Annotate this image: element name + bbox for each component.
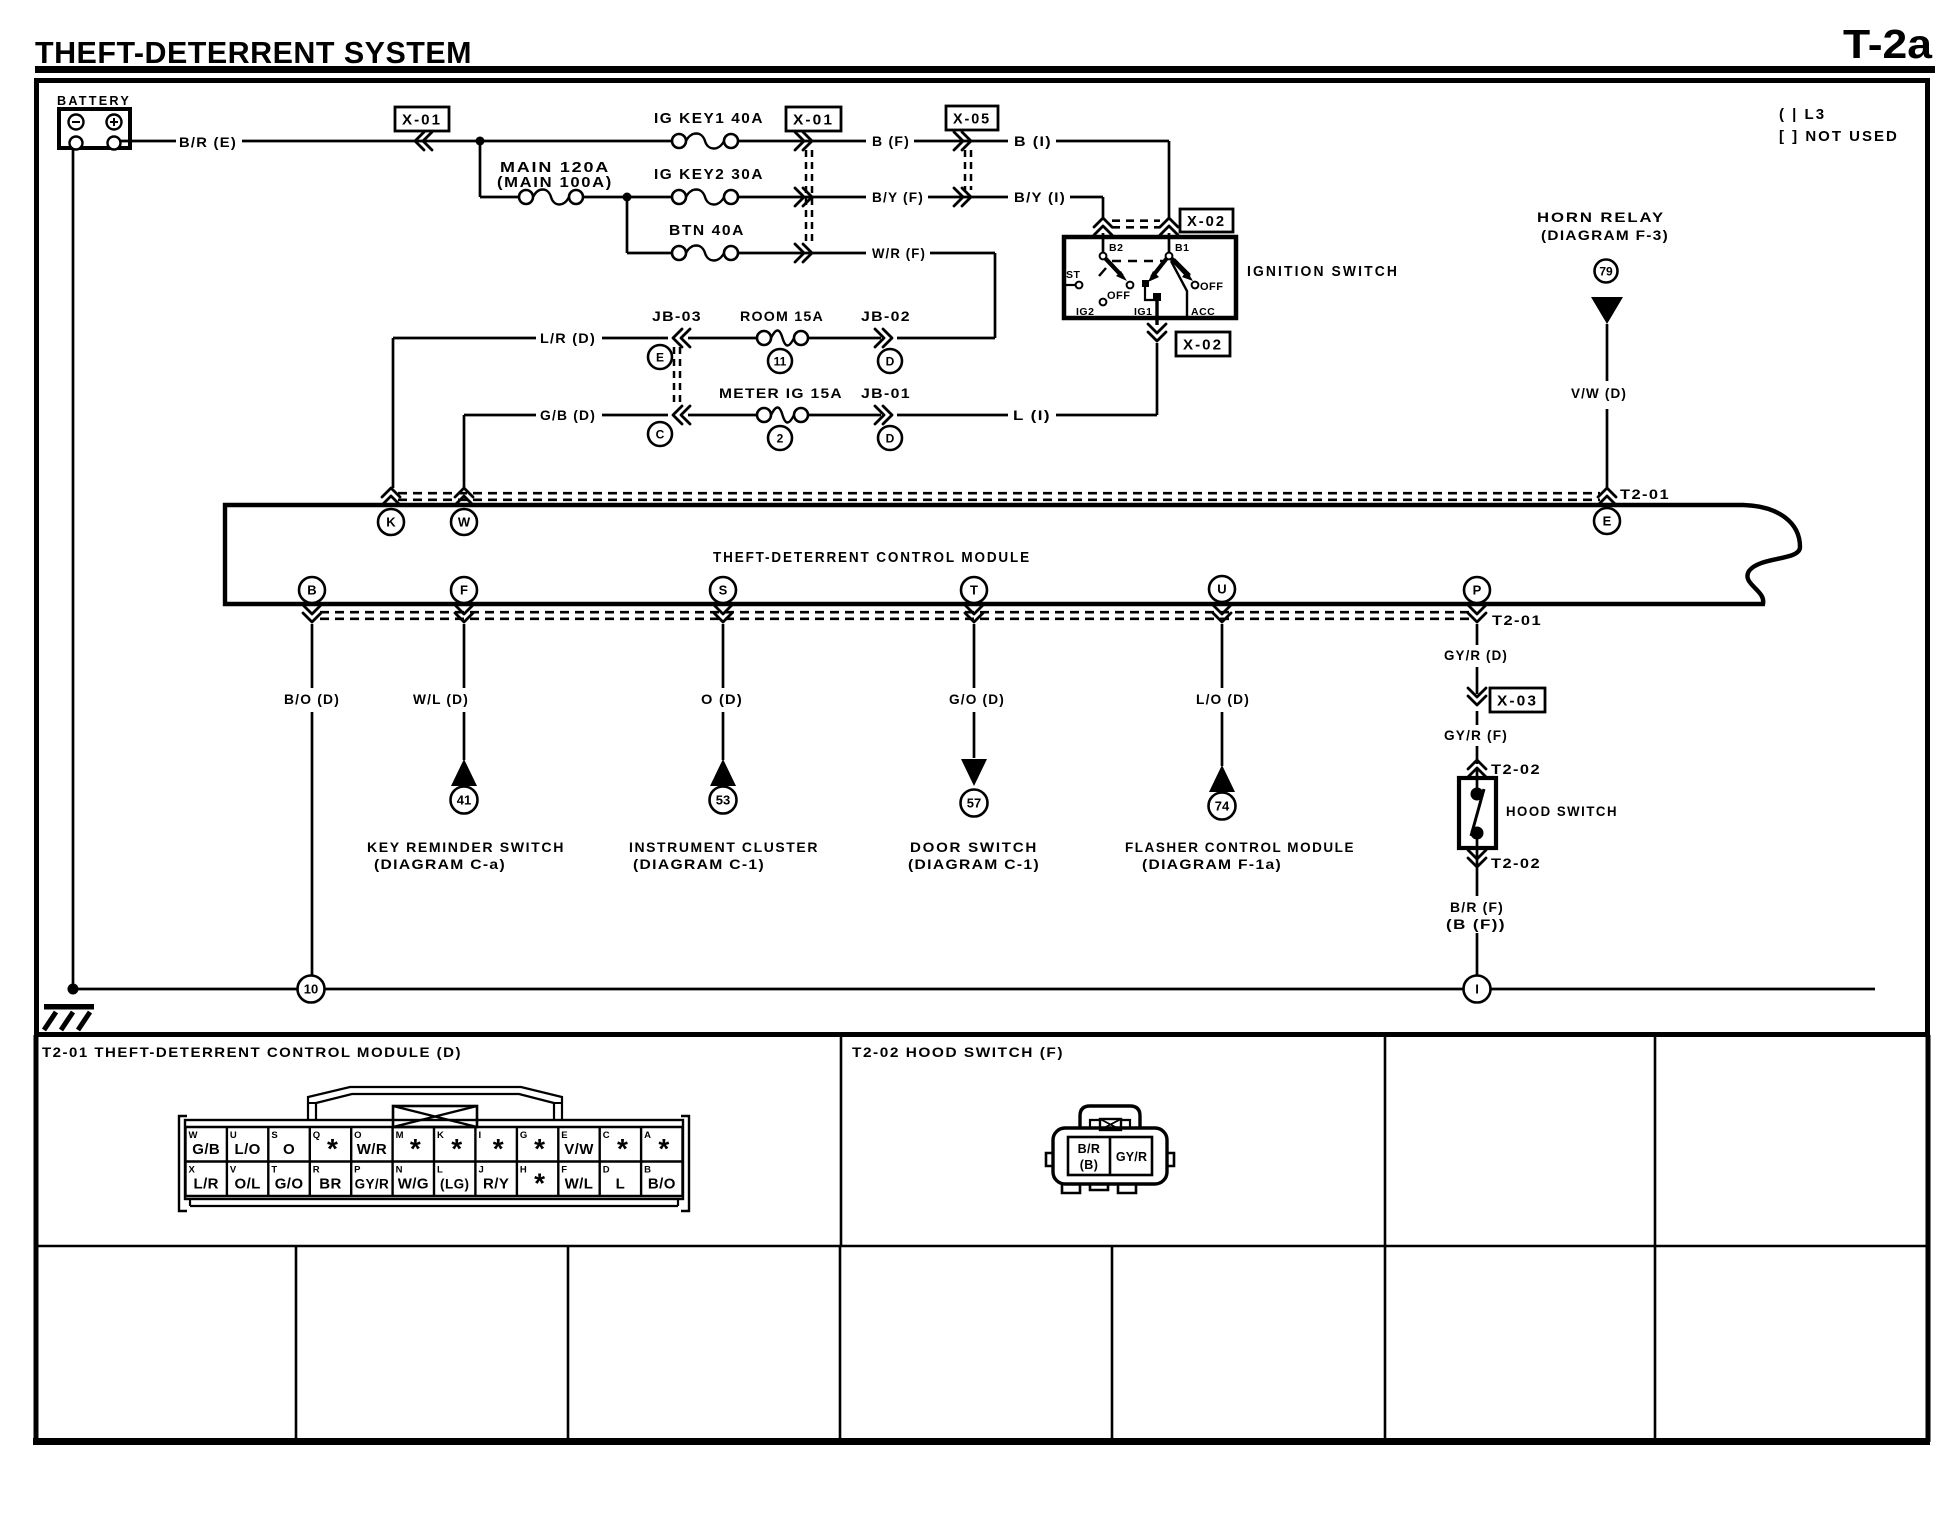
- pin B chevron: [303, 605, 321, 622]
- ground bus wire: [73, 988, 298, 991]
- wire L (I): [897, 414, 1008, 417]
- JB-03 dashed link: [673, 347, 676, 407]
- svg-text:DOOR SWITCH: DOOR SWITCH: [910, 839, 1038, 855]
- svg-text:*: *: [534, 1168, 545, 1199]
- svg-text:57: 57: [967, 796, 981, 811]
- T2-01 hood: [308, 1087, 562, 1120]
- wire L/O (D) to flasher control module: [1221, 624, 1224, 688]
- ignition ACC branch: [1171, 261, 1187, 317]
- svg-text:*: *: [534, 1133, 545, 1164]
- wire to BTN fuse: [626, 197, 629, 253]
- svg-text:53: 53: [716, 793, 730, 808]
- hood switch: [1459, 778, 1496, 848]
- svg-text:OFF: OFF: [1107, 290, 1131, 302]
- node 10 ground: [298, 976, 325, 1003]
- pin D junction block JB-02: [878, 349, 902, 373]
- svg-text:F: F: [561, 1165, 567, 1176]
- node junction MAIN output: [623, 193, 632, 202]
- pin D junction block JB-01: [878, 426, 902, 450]
- svg-text:INSTRUMENT CLUSTER: INSTRUMENT CLUSTER: [629, 839, 819, 855]
- svg-text:S: S: [719, 583, 728, 598]
- ignition IG1 contact: [1142, 280, 1149, 287]
- svg-text:T2-02: T2-02: [1491, 761, 1541, 777]
- svg-text:( | L3: ( | L3: [1779, 106, 1826, 123]
- svg-text:W/L: W/L: [565, 1176, 594, 1193]
- svg-text:[ ] NOT USED: [ ] NOT USED: [1779, 128, 1899, 145]
- module T2-01 dashed interface top: [398, 492, 1600, 495]
- svg-text:(MAIN 100A): (MAIN 100A): [497, 174, 613, 191]
- pin B: [299, 577, 325, 603]
- svg-text:FLASHER CONTROL MODULE: FLASHER CONTROL MODULE: [1125, 839, 1355, 855]
- wire GY/R (F): [1476, 711, 1479, 725]
- svg-text:BTN 40A: BTN 40A: [669, 222, 745, 239]
- svg-text:GY/R (F): GY/R (F): [1444, 727, 1508, 743]
- svg-text:O/L: O/L: [235, 1176, 261, 1193]
- arrow from horn relay: [1591, 297, 1623, 324]
- connector T2-02 drawing: [1080, 1106, 1140, 1129]
- svg-text:T2-01: T2-01: [1492, 612, 1542, 628]
- svg-text:IG1: IG1: [1134, 306, 1152, 318]
- svg-text:O (D): O (D): [701, 691, 743, 707]
- svg-text:G/B: G/B: [192, 1141, 220, 1158]
- svg-text:K: K: [437, 1130, 444, 1141]
- svg-text:T2-01: T2-01: [1620, 486, 1670, 502]
- svg-text:IG KEY1 40A: IG KEY1 40A: [654, 110, 764, 127]
- svg-text:D: D: [603, 1165, 610, 1176]
- wire G/B (D) row: [464, 414, 536, 417]
- svg-text:E: E: [656, 350, 664, 364]
- svg-text:T2-01 THEFT-DETERRENT CONTROL: T2-01 THEFT-DETERRENT CONTROL MODULE (D): [42, 1044, 462, 1060]
- svg-text:B/Y (F): B/Y (F): [872, 189, 924, 205]
- wire battery negative to ground bus: [72, 149, 75, 989]
- svg-text:W/R: W/R: [357, 1141, 387, 1158]
- pin E junction block: [648, 345, 672, 369]
- svg-text:*: *: [327, 1133, 338, 1164]
- svg-text:X-02: X-02: [1183, 337, 1223, 354]
- svg-text:E: E: [561, 1130, 567, 1141]
- pin 2 junction block: [768, 426, 792, 450]
- svg-text:A: A: [644, 1130, 651, 1141]
- T2-02 lock flag: [1100, 1119, 1121, 1130]
- arrow 41 key reminder switch: [451, 759, 477, 786]
- svg-text:B/R (E): B/R (E): [179, 134, 237, 150]
- svg-text:L/O: L/O: [235, 1141, 261, 1158]
- svg-text:W/G: W/G: [398, 1176, 429, 1193]
- ignition B2 switch arm: [1105, 258, 1122, 276]
- svg-text:P: P: [1473, 583, 1482, 598]
- theft-deterrent control module box: [225, 505, 1800, 604]
- svg-text:W: W: [189, 1130, 198, 1141]
- svg-text:JB-02: JB-02: [861, 308, 911, 324]
- svg-text:G/B (D): G/B (D): [540, 407, 596, 423]
- svg-text:J: J: [478, 1165, 483, 1176]
- svg-text:V/W (D): V/W (D): [1571, 385, 1627, 401]
- svg-text:THEFT-DETERRENT SYSTEM: THEFT-DETERRENT SYSTEM: [35, 35, 472, 70]
- pin W: [451, 509, 477, 535]
- svg-text:R/Y: R/Y: [483, 1176, 509, 1193]
- svg-text:E: E: [1603, 514, 1612, 529]
- svg-text:74: 74: [1215, 799, 1230, 814]
- svg-text:(DIAGRAM C-a): (DIAGRAM C-a): [374, 856, 506, 872]
- connector X-02 lower: [1148, 324, 1166, 341]
- pin S chevron: [714, 605, 732, 622]
- svg-text:X-03: X-03: [1497, 693, 1538, 710]
- pin F: [451, 577, 477, 603]
- svg-text:B/O: B/O: [648, 1176, 676, 1193]
- svg-text:IG2: IG2: [1076, 306, 1094, 318]
- ignition terminal B2: [1100, 253, 1107, 260]
- svg-text:V: V: [230, 1165, 237, 1176]
- svg-text:V/W: V/W: [564, 1141, 594, 1158]
- svg-text:OFF: OFF: [1200, 281, 1224, 293]
- ignition B1 switch arms: [1171, 258, 1189, 277]
- svg-text:B2: B2: [1109, 242, 1123, 254]
- pin E: [1594, 508, 1620, 534]
- svg-text:G/O (D): G/O (D): [949, 691, 1005, 707]
- connector T2-02 lower: [1476, 833, 1479, 866]
- wire to MAIN fuse: [479, 141, 482, 197]
- svg-text:BATTERY: BATTERY: [57, 94, 131, 108]
- svg-text:I: I: [1475, 982, 1479, 997]
- connector JB-03 row2: [673, 406, 690, 424]
- svg-text:41: 41: [457, 793, 471, 808]
- svg-text:B/R: B/R: [1078, 1142, 1101, 1156]
- svg-text:X-02: X-02: [1187, 213, 1226, 230]
- pin T: [961, 577, 987, 603]
- arrow 74 flasher control module: [1209, 765, 1235, 792]
- wire B/R (E) battery to junction: [121, 140, 176, 143]
- svg-text:(LG): (LG): [440, 1177, 469, 1192]
- svg-text:B: B: [644, 1165, 651, 1176]
- node I ground: [1464, 976, 1491, 1003]
- svg-text:C: C: [656, 427, 665, 441]
- svg-text:ROOM 15A: ROOM 15A: [740, 308, 824, 324]
- ground symbol: [44, 1004, 94, 1010]
- svg-text:I: I: [478, 1130, 481, 1141]
- svg-text:T-2a: T-2a: [1843, 21, 1933, 67]
- svg-text:F: F: [460, 583, 468, 598]
- svg-text:*: *: [451, 1133, 462, 1164]
- svg-text:W/R (F): W/R (F): [872, 245, 926, 261]
- svg-text:N: N: [396, 1165, 403, 1176]
- wire L/R (D) row: [393, 337, 536, 340]
- pin E chevron: [1598, 488, 1616, 505]
- module T2-01 dashed interface bottom: [320, 611, 1470, 614]
- svg-text:L: L: [616, 1176, 626, 1193]
- pin W chevron: [455, 488, 473, 505]
- wire V/W (D): [1606, 324, 1609, 381]
- svg-text:BR: BR: [319, 1176, 341, 1193]
- svg-text:L/R (D): L/R (D): [540, 330, 596, 346]
- T2-01 end caps: [179, 1116, 187, 1211]
- wire drop to module pin W: [463, 415, 466, 488]
- svg-text:C: C: [603, 1130, 610, 1141]
- svg-text:ACC: ACC: [1191, 306, 1215, 318]
- wire W/R (F): [738, 252, 866, 255]
- node junction battery feed: [476, 137, 485, 146]
- svg-text:K: K: [386, 515, 396, 530]
- svg-text:(B): (B): [1080, 1158, 1099, 1172]
- svg-text:METER IG 15A: METER IG 15A: [719, 385, 843, 401]
- wire B/O (D) pin B to ground node 10: [311, 624, 314, 688]
- svg-text:THEFT-DETERRENT CONTROL MODULE: THEFT-DETERRENT CONTROL MODULE: [713, 550, 1031, 566]
- connector X-02 upper: [1094, 218, 1112, 235]
- svg-text:(DIAGRAM C-1): (DIAGRAM C-1): [633, 856, 765, 872]
- svg-text:M: M: [396, 1130, 404, 1141]
- wire GY/R (D): [1476, 624, 1479, 645]
- svg-text:GY/R: GY/R: [355, 1177, 390, 1192]
- title underline rule: [35, 66, 1935, 73]
- pin U chevron: [1213, 605, 1231, 622]
- arrow 57 door switch: [961, 759, 987, 786]
- svg-text:79: 79: [1599, 264, 1613, 278]
- connector X-01 (dash side): [786, 107, 841, 131]
- wire B/R (F): [1476, 867, 1479, 896]
- svg-text:JB-01: JB-01: [861, 385, 911, 401]
- pin P chevron: [1468, 605, 1486, 622]
- wire O (D) to instrument cluster: [722, 624, 725, 688]
- svg-text:(DIAGRAM C-1): (DIAGRAM C-1): [908, 856, 1040, 872]
- connector X-03: [1468, 688, 1486, 705]
- T2-01 body: [185, 1120, 683, 1199]
- wire B (F): [738, 140, 866, 143]
- pin K: [378, 509, 404, 535]
- connector X-01 dashed link: [805, 150, 808, 246]
- table grid: [34, 1035, 39, 1442]
- connector X-05 dashed link: [964, 150, 967, 190]
- svg-text:HOOD SWITCH: HOOD SWITCH: [1506, 803, 1618, 819]
- node 79: [1595, 260, 1618, 283]
- wire into B1: [1168, 233, 1171, 252]
- svg-text:*: *: [617, 1133, 628, 1164]
- pin 11 junction block: [768, 349, 792, 373]
- svg-text:R: R: [313, 1165, 320, 1176]
- svg-text:B/O (D): B/O (D): [284, 691, 340, 707]
- wire B/Y (F): [738, 196, 866, 199]
- svg-text:L (I): L (I): [1013, 407, 1051, 423]
- wire drop to module pin K: [392, 338, 395, 488]
- svg-text:GY/R (D): GY/R (D): [1444, 647, 1508, 663]
- svg-text:X-05: X-05: [953, 111, 991, 128]
- pin K chevron: [382, 488, 400, 505]
- svg-text:T: T: [970, 583, 978, 598]
- ignition mechanical link dashes: [1099, 268, 1106, 276]
- pin P: [1464, 577, 1490, 603]
- svg-text:B (F): B (F): [872, 133, 910, 149]
- ignition OFF contact right: [1192, 282, 1199, 289]
- svg-text:O: O: [354, 1130, 361, 1141]
- ignition terminal IG2: [1100, 299, 1107, 306]
- svg-text:G: G: [520, 1130, 527, 1141]
- svg-text:HORN RELAY: HORN RELAY: [1537, 209, 1665, 225]
- connector T2-02 upper: [1476, 770, 1479, 794]
- svg-text:X-01: X-01: [793, 112, 834, 129]
- svg-text:D: D: [886, 354, 895, 368]
- svg-text:U: U: [1217, 582, 1226, 597]
- wire G/O (D) to door switch: [973, 624, 976, 688]
- svg-text:ST: ST: [1066, 269, 1081, 281]
- pin C junction block: [648, 422, 672, 446]
- svg-text:IG KEY2 30A: IG KEY2 30A: [654, 166, 764, 183]
- node ground junction: [68, 984, 79, 995]
- svg-text:B/Y (I): B/Y (I): [1014, 189, 1066, 205]
- svg-text:U: U: [230, 1130, 237, 1141]
- pin T chevron: [965, 605, 983, 622]
- svg-text:JB-03: JB-03: [652, 308, 702, 324]
- svg-text:D: D: [886, 431, 895, 445]
- svg-text:L/O (D): L/O (D): [1196, 691, 1250, 707]
- svg-text:KEY REMINDER SWITCH: KEY REMINDER SWITCH: [367, 839, 565, 855]
- svg-text:B: B: [307, 583, 316, 598]
- ignition switch: [1064, 237, 1236, 318]
- svg-text:*: *: [493, 1133, 504, 1164]
- svg-text:H: H: [520, 1165, 527, 1176]
- svg-text:IGNITION SWITCH: IGNITION SWITCH: [1247, 264, 1399, 280]
- svg-text:*: *: [410, 1133, 421, 1164]
- svg-text:S: S: [271, 1130, 277, 1141]
- pin U: [1209, 576, 1235, 602]
- svg-text:L/R: L/R: [194, 1176, 219, 1193]
- main diagram border: [37, 81, 1928, 1035]
- T2-02 shell: [1053, 1128, 1167, 1184]
- svg-text:W: W: [458, 515, 471, 530]
- svg-text:2: 2: [777, 431, 784, 445]
- svg-text:11: 11: [774, 354, 787, 368]
- arrow 53 instrument cluster: [710, 759, 736, 786]
- svg-text:W/L (D): W/L (D): [413, 691, 469, 707]
- svg-text:O: O: [283, 1141, 295, 1158]
- svg-text:T2-02 HOOD SWITCH (F): T2-02 HOOD SWITCH (F): [852, 1044, 1064, 1060]
- svg-text:*: *: [658, 1133, 669, 1164]
- wire IG1 output: [1155, 301, 1158, 325]
- svg-text:(DIAGRAM F-1a): (DIAGRAM F-1a): [1142, 856, 1282, 872]
- svg-text:B/R (F): B/R (F): [1450, 899, 1504, 915]
- svg-text:T: T: [271, 1165, 277, 1176]
- svg-text:X-01: X-01: [402, 112, 442, 129]
- svg-text:G/O: G/O: [275, 1176, 304, 1193]
- wire W/L (D) to key reminder switch: [463, 624, 466, 688]
- T2-02 pin B/R (B): [1068, 1137, 1152, 1175]
- svg-text:B1: B1: [1175, 242, 1189, 254]
- pin S: [710, 577, 736, 603]
- svg-text:GY/R: GY/R: [1116, 1150, 1147, 1164]
- svg-text:Q: Q: [313, 1130, 320, 1141]
- ignition terminal B1: [1166, 253, 1173, 260]
- svg-text:T2-02: T2-02: [1491, 855, 1541, 871]
- svg-text:B (I): B (I): [1014, 133, 1052, 149]
- svg-text:(B (F)): (B (F)): [1446, 916, 1506, 932]
- svg-text:10: 10: [304, 982, 318, 997]
- wire into B2: [1102, 233, 1105, 252]
- pin F chevron: [455, 605, 473, 622]
- T2-01 lock tab crossed box: [393, 1106, 477, 1127]
- connector X-01 (battery side): [395, 107, 449, 131]
- T2-02 feet: [1062, 1184, 1080, 1193]
- ignition OFF contact left: [1127, 282, 1134, 289]
- connector X-05: [946, 106, 998, 130]
- svg-text:X: X: [189, 1165, 196, 1176]
- svg-text:(DIAGRAM F-3): (DIAGRAM F-3): [1541, 227, 1669, 243]
- svg-text:L: L: [437, 1165, 443, 1176]
- svg-text:P: P: [354, 1165, 361, 1176]
